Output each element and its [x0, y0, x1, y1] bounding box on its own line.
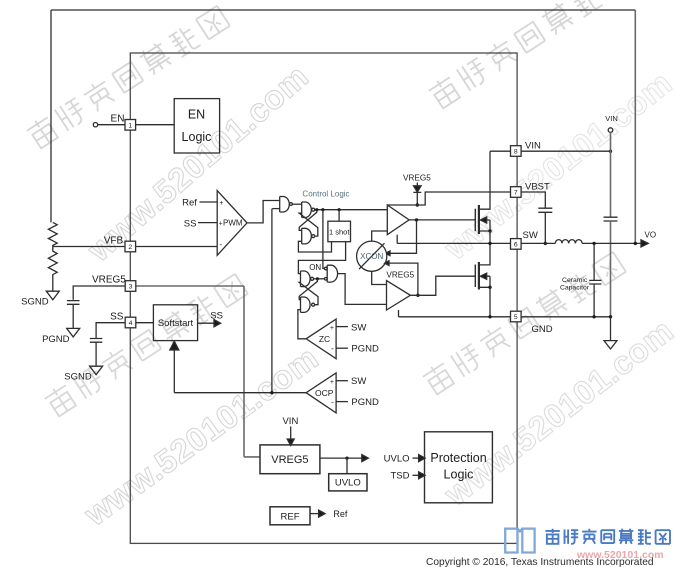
svg-text:+: +	[330, 325, 334, 332]
svg-text:SW: SW	[523, 230, 538, 241]
wire latch cross coupling top	[299, 210, 317, 231]
wire 1shot to gateC input	[298, 241, 331, 252]
pin 8 VIN	[511, 146, 522, 157]
svg-text:VREG5: VREG5	[271, 454, 308, 466]
logo chinese text	[545, 529, 670, 544]
wire outer loop left vertical	[50, 10, 52, 222]
svg-text:XCON: XCON	[360, 252, 383, 261]
wire LS driver bottom rail to GND	[398, 310, 400, 317]
node diode junction	[416, 203, 419, 206]
svg-text:VFB: VFB	[104, 235, 124, 246]
wire VREG5 internal rail	[136, 286, 260, 457]
gate D latch2 nand	[301, 271, 311, 287]
svg-text:VREG5: VREG5	[386, 271, 414, 280]
svg-text:Ref: Ref	[333, 509, 348, 519]
wire Q1 source to SW	[489, 231, 491, 243]
capacitor C-out ceramic	[589, 243, 601, 316]
svg-text:2: 2	[128, 244, 132, 251]
capacitor C2 softstart	[90, 339, 102, 367]
svg-text:PGND: PGND	[42, 334, 70, 345]
wire ZC SW input stub	[336, 326, 348, 328]
svg-text:PGND: PGND	[351, 343, 379, 354]
gate A nand	[280, 197, 290, 213]
svg-text:UVLO: UVLO	[384, 453, 410, 464]
wire outer feedback loop top	[51, 9, 635, 11]
capacitor C1 VREG5 bypass	[67, 301, 80, 329]
svg-text:SW: SW	[351, 376, 366, 387]
wire VIN column	[610, 132, 612, 217]
pin 1 EN	[125, 120, 136, 131]
block UVLO box	[329, 474, 367, 491]
wire ZC PGND input stub	[336, 347, 348, 349]
svg-text:7: 7	[514, 190, 518, 197]
node VIN terminal	[608, 128, 613, 133]
wire gateD out to ON gate	[314, 278, 325, 280]
svg-text:SS: SS	[184, 218, 197, 229]
wire VREG5 pin3 external	[73, 286, 125, 300]
pin 6 SW	[511, 239, 522, 250]
gate C latch nand	[302, 228, 312, 244]
svg-text:GND: GND	[532, 324, 553, 335]
wire OCP output to softstart and gateA	[174, 209, 306, 393]
circle XCON block	[357, 241, 387, 271]
svg-text:+: +	[219, 200, 223, 207]
svg-text:4: 4	[129, 320, 133, 327]
svg-text:1 shot: 1 shot	[329, 227, 350, 236]
svg-text:Softstart: Softstart	[158, 318, 194, 329]
node LS driver out	[416, 294, 419, 297]
svg-text:Control Logic: Control Logic	[302, 190, 349, 199]
pin 4 SS	[125, 317, 136, 328]
wire OCP SW input stub	[336, 380, 348, 382]
block Softstart box	[153, 305, 197, 341]
wire ON gate out to LS driver	[338, 274, 387, 305]
svg-text:SS: SS	[110, 311, 124, 322]
wire VIN pin8 internal	[490, 150, 511, 152]
svg-text:PWM: PWM	[223, 219, 243, 228]
node VO-feedback junction	[634, 242, 637, 245]
svg-text:VBST: VBST	[525, 181, 550, 192]
node HS driver out	[415, 218, 418, 221]
watermark chinese mid-left	[43, 272, 248, 418]
wire SS input	[198, 222, 217, 224]
wire PWM output to gateA	[247, 201, 280, 223]
transistor Q2 low-side MOSFET	[474, 265, 476, 288]
wire SS pin4 to softstart	[136, 322, 154, 324]
node dots on gateB rail	[315, 208, 318, 211]
transistor Q1 high-side MOSFET	[474, 209, 476, 232]
svg-text:3: 3	[129, 284, 133, 291]
svg-text:VREG5: VREG5	[403, 174, 431, 183]
svg-text:Protection: Protection	[430, 451, 486, 465]
inductor L1	[555, 240, 582, 244]
ground PGND C1	[67, 328, 80, 337]
block VREG5 regulator box	[260, 445, 320, 474]
wire gateB output rail to HS driver	[315, 209, 388, 211]
wire pin8 to VIN column	[521, 150, 610, 152]
wire gateA lower input	[272, 208, 280, 210]
svg-text:UVLO: UVLO	[335, 478, 361, 489]
svg-text:ON: ON	[309, 263, 321, 272]
wire VFB internal to PWM	[136, 246, 218, 248]
wire 1shot to gateD input	[298, 242, 345, 274]
gate F latch2 nand	[301, 297, 311, 312]
watermark chinese mid-right	[421, 250, 626, 396]
node junction gateD out	[316, 277, 319, 280]
capacitor C-in	[604, 217, 618, 221]
wire gateB to 1shot	[338, 210, 340, 222]
op-amp OCP comparator	[306, 373, 336, 413]
node Cout junction	[592, 242, 595, 245]
svg-text:VIN: VIN	[605, 114, 618, 123]
svg-text:+: +	[330, 379, 334, 386]
svg-text:Copyright © 2016, Texas Instru: Copyright © 2016, Texas Instruments Inco…	[426, 557, 654, 567]
node SW rail dots	[488, 242, 491, 245]
wire VIN column lower	[610, 221, 612, 317]
node pin8-VIN junction	[609, 150, 612, 153]
svg-text:6: 6	[514, 242, 518, 249]
op-amp LS gate driver	[387, 281, 411, 310]
wire HS out sense to XCON	[390, 220, 417, 253]
svg-text:Logic: Logic	[182, 130, 212, 144]
svg-text:PGND: PGND	[351, 397, 379, 408]
node VREG5-UVLO junction	[345, 457, 348, 460]
svg-text:Ceramic: Ceramic	[562, 277, 588, 284]
wire latch2 cross coupling	[299, 279, 317, 300]
svg-text:OCP: OCP	[315, 388, 334, 398]
wire VREG5 output arrow	[320, 457, 362, 459]
svg-text:Capacitor: Capacitor	[560, 285, 590, 292]
wire OCP PGND input stub	[336, 401, 348, 403]
wire Ref input	[200, 201, 218, 203]
wire GND internal rail	[399, 316, 511, 318]
wire HS driver output to gate	[409, 219, 475, 221]
watermark chinese top-right	[427, 0, 632, 110]
ground SGND divider	[46, 291, 59, 300]
svg-text:1: 1	[128, 122, 132, 129]
ground SGND C2	[90, 366, 103, 375]
wire LS driver output to gate	[410, 276, 475, 295]
svg-text:REF: REF	[281, 512, 300, 523]
ground symbol output	[604, 317, 617, 349]
svg-text:VO: VO	[645, 231, 657, 240]
wire XCON to HS driver enable	[372, 231, 388, 241]
wire ZC out to gateF	[298, 310, 306, 339]
resistor R1 feedback top	[48, 222, 57, 246]
block EN Logic box	[174, 99, 219, 153]
wire XCON to LS driver enable	[372, 271, 387, 284]
wire pin7 to bootstrap cap	[521, 192, 545, 208]
op-amp HS gate driver	[387, 205, 409, 235]
pin 5 GND	[511, 311, 522, 322]
svg-text:SGND: SGND	[21, 296, 49, 307]
op-amp ZC comparator	[306, 319, 336, 359]
svg-text:-: -	[331, 398, 334, 407]
svg-text:ZC: ZC	[319, 334, 330, 344]
wire softstart SS output arrow	[198, 322, 214, 324]
wire pin5 GND external	[521, 316, 610, 318]
wire VFB node	[53, 246, 125, 248]
wire driver rail to VBST pin7	[387, 192, 510, 205]
svg-text:Ref: Ref	[182, 198, 197, 209]
node Q1 source-body	[488, 229, 491, 232]
wire REF output arrow	[310, 513, 319, 515]
IC boundary box	[130, 53, 517, 543]
svg-text:-: -	[331, 344, 334, 353]
svg-text:SGND: SGND	[64, 372, 92, 383]
block REF box	[270, 507, 310, 525]
block Protection Logic box	[425, 432, 493, 503]
logo book icon	[505, 529, 534, 553]
pin 2 VFB	[125, 241, 136, 252]
wire VO output	[582, 242, 641, 244]
wire UVLO arrow to protection	[413, 457, 420, 459]
node GND junctions	[592, 315, 595, 318]
wire gateA out to gateB	[292, 203, 301, 205]
svg-text:VIN: VIN	[525, 140, 541, 151]
watermark chinese top-left	[25, 4, 230, 150]
node EN terminal	[93, 123, 97, 127]
wire gateB to ON gate vertical	[323, 210, 325, 269]
wire outer loop right vertical	[634, 10, 636, 243]
svg-text:VIN: VIN	[282, 416, 298, 427]
wire LS out sense to XCON	[389, 263, 418, 295]
wire to UVLO block	[346, 458, 348, 474]
gate E ON and-gate with inverted inputs	[327, 265, 337, 282]
svg-text:VREG5: VREG5	[92, 274, 126, 285]
pin 7 VBST	[511, 187, 522, 198]
wire EN to pin1	[98, 124, 125, 126]
diode D1 VREG5 to bootstrap	[416, 183, 418, 186]
wire TSD arrow to protection	[413, 474, 420, 476]
resistor R2 feedback bottom	[48, 247, 57, 292]
wire SW internal rail	[397, 242, 510, 244]
wire SS pin4 external	[96, 323, 125, 338]
node junction OCP-softstart	[270, 391, 273, 394]
svg-text:SW: SW	[351, 322, 366, 333]
svg-text:EN: EN	[188, 108, 205, 122]
node boot-SW junction	[544, 242, 547, 245]
wire pin1 to EN logic	[136, 124, 175, 126]
pin 3 VREG5	[125, 281, 136, 292]
gate B latch nand	[302, 202, 312, 218]
wire Q2 source to GND	[489, 287, 491, 317]
wire pin6 to inductor	[521, 242, 555, 244]
capacitor C-boot VBST	[538, 208, 552, 243]
svg-text:EN: EN	[111, 114, 125, 125]
svg-text:Logic: Logic	[444, 468, 474, 482]
block 1-shot box	[328, 221, 351, 242]
op-amp PWM comparator	[217, 191, 247, 256]
svg-text:5: 5	[514, 314, 518, 321]
svg-text:TSD: TSD	[391, 471, 410, 482]
svg-text:8: 8	[514, 149, 518, 156]
svg-text:-: -	[219, 240, 222, 249]
node Q2 source-body	[488, 286, 491, 289]
svg-text:SS: SS	[210, 311, 223, 322]
wire HS driver bottom rail to SW	[396, 235, 398, 244]
wire VIN arrow into VREG5	[290, 427, 292, 440]
